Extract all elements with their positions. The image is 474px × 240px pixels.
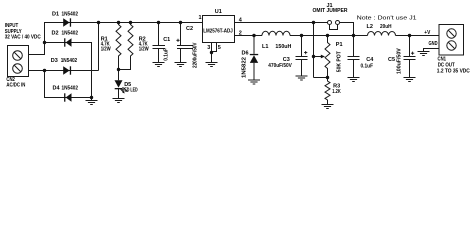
svg-text:D1: D1	[52, 11, 59, 17]
svg-text:D2: D2	[52, 30, 59, 36]
svg-text:50K POT: 50K POT	[337, 51, 343, 73]
svg-text:20uH: 20uH	[380, 24, 392, 30]
svg-text:150uH: 150uH	[275, 44, 291, 50]
svg-text:C4: C4	[366, 57, 374, 63]
svg-text:DC OUT: DC OUT	[438, 62, 456, 68]
svg-text:1.2K: 1.2K	[332, 89, 341, 95]
svg-text:1: 1	[199, 15, 202, 21]
svg-text:D3: D3	[51, 58, 58, 64]
svg-text:AC/DC IN: AC/DC IN	[6, 82, 25, 88]
svg-text:1.2 TO 35 VDC: 1.2 TO 35 VDC	[437, 68, 470, 74]
svg-text:L2: L2	[367, 24, 373, 30]
svg-text:5: 5	[218, 45, 221, 51]
svg-text:U1: U1	[215, 9, 222, 15]
svg-text:C1: C1	[163, 37, 170, 43]
svg-text:L1: L1	[262, 44, 268, 50]
svg-text:1N5822: 1N5822	[242, 57, 248, 78]
svg-text:+V: +V	[424, 30, 430, 36]
svg-text:RED LED: RED LED	[122, 87, 138, 93]
svg-text:GND: GND	[429, 41, 438, 47]
svg-text:32 VAC / 40 VDC: 32 VAC / 40 VDC	[5, 35, 41, 41]
svg-text:1N5402: 1N5402	[61, 58, 77, 64]
svg-text:P1: P1	[336, 42, 343, 48]
svg-text:LM2576T-ADJ: LM2576T-ADJ	[203, 28, 233, 34]
svg-text:2: 2	[239, 30, 242, 36]
svg-text:D6: D6	[242, 50, 249, 56]
svg-text:100uF/50V: 100uF/50V	[396, 48, 402, 74]
svg-text:C2: C2	[186, 26, 193, 32]
svg-text:Note : Don't use J1: Note : Don't use J1	[357, 15, 417, 21]
svg-text:1N5402: 1N5402	[62, 30, 79, 36]
svg-text:1N5402: 1N5402	[62, 85, 79, 91]
svg-text:1/2W: 1/2W	[139, 47, 150, 53]
svg-text:C5: C5	[388, 57, 395, 63]
svg-text:OMIT JUMPER: OMIT JUMPER	[313, 8, 348, 14]
svg-text:0.1uF: 0.1uF	[361, 63, 374, 69]
svg-text:1/2W: 1/2W	[101, 47, 112, 53]
svg-text:D4: D4	[53, 85, 61, 91]
svg-text:0.1uF: 0.1uF	[163, 48, 169, 61]
svg-text:470uF/50V: 470uF/50V	[268, 63, 292, 69]
svg-text:3: 3	[207, 45, 210, 51]
svg-text:2200uF/50V: 2200uF/50V	[193, 42, 199, 68]
svg-text:1N5402: 1N5402	[62, 11, 79, 17]
